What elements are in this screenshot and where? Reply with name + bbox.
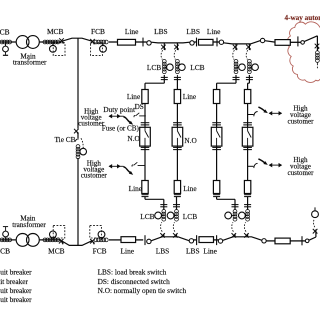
svg-text:LBS: LBS bbox=[186, 27, 200, 36]
svg-text:4-way automatic: 4-way automatic bbox=[285, 14, 320, 22]
svg-text:Line: Line bbox=[183, 184, 196, 193]
svg-text:Line: Line bbox=[129, 184, 142, 193]
svg-text:DS: disconnected switch: DS: disconnected switch bbox=[98, 277, 170, 286]
svg-text:Duty point: Duty point bbox=[103, 105, 136, 114]
svg-text:Line: Line bbox=[121, 246, 135, 255]
svg-text:it breaker: it breaker bbox=[0, 277, 28, 286]
svg-text:LBS: LBS bbox=[154, 27, 168, 36]
svg-text:N.O: normally open tie switch: N.O: normally open tie switch bbox=[98, 286, 187, 295]
svg-text:Line: Line bbox=[127, 92, 140, 101]
svg-text:MCB: MCB bbox=[0, 247, 10, 256]
svg-text:FCB: FCB bbox=[93, 246, 107, 255]
svg-text:MCB: MCB bbox=[48, 246, 65, 255]
svg-text:LBS: LBS bbox=[186, 246, 200, 255]
svg-text:LCB: LCB bbox=[190, 63, 204, 72]
svg-text:LCB: LCB bbox=[183, 212, 197, 221]
svg-text:MCB: MCB bbox=[0, 28, 10, 37]
svg-text:N.O: N.O bbox=[127, 134, 139, 143]
svg-text:LCB: LCB bbox=[147, 63, 161, 72]
svg-text:Tie CB: Tie CB bbox=[54, 135, 75, 144]
svg-text:Line: Line bbox=[203, 246, 217, 255]
svg-text:customer: customer bbox=[287, 118, 314, 126]
svg-text:transformer: transformer bbox=[12, 221, 46, 229]
svg-text:uit breaker: uit breaker bbox=[0, 286, 32, 295]
svg-text:Line: Line bbox=[183, 92, 196, 101]
svg-text:customer: customer bbox=[287, 169, 314, 177]
svg-text:LBS: load break switch: LBS: load break switch bbox=[98, 268, 167, 277]
svg-text:DS: DS bbox=[135, 103, 144, 111]
svg-text:LCB: LCB bbox=[140, 212, 154, 221]
svg-text:LBS: LBS bbox=[156, 246, 170, 255]
svg-text:Line: Line bbox=[125, 27, 139, 36]
svg-text:Line: Line bbox=[207, 27, 221, 36]
svg-text:Fuse (or CB): Fuse (or CB) bbox=[102, 125, 140, 133]
svg-text:N.O: N.O bbox=[184, 136, 196, 145]
svg-text:transformer: transformer bbox=[13, 58, 47, 66]
svg-text:customer: customer bbox=[81, 172, 108, 180]
svg-text:FCB: FCB bbox=[91, 27, 105, 36]
svg-text:uit breaker: uit breaker bbox=[0, 295, 32, 304]
svg-text:MCB: MCB bbox=[47, 27, 64, 36]
svg-text:uit breaker: uit breaker bbox=[0, 268, 32, 277]
svg-text:customer: customer bbox=[78, 119, 105, 127]
